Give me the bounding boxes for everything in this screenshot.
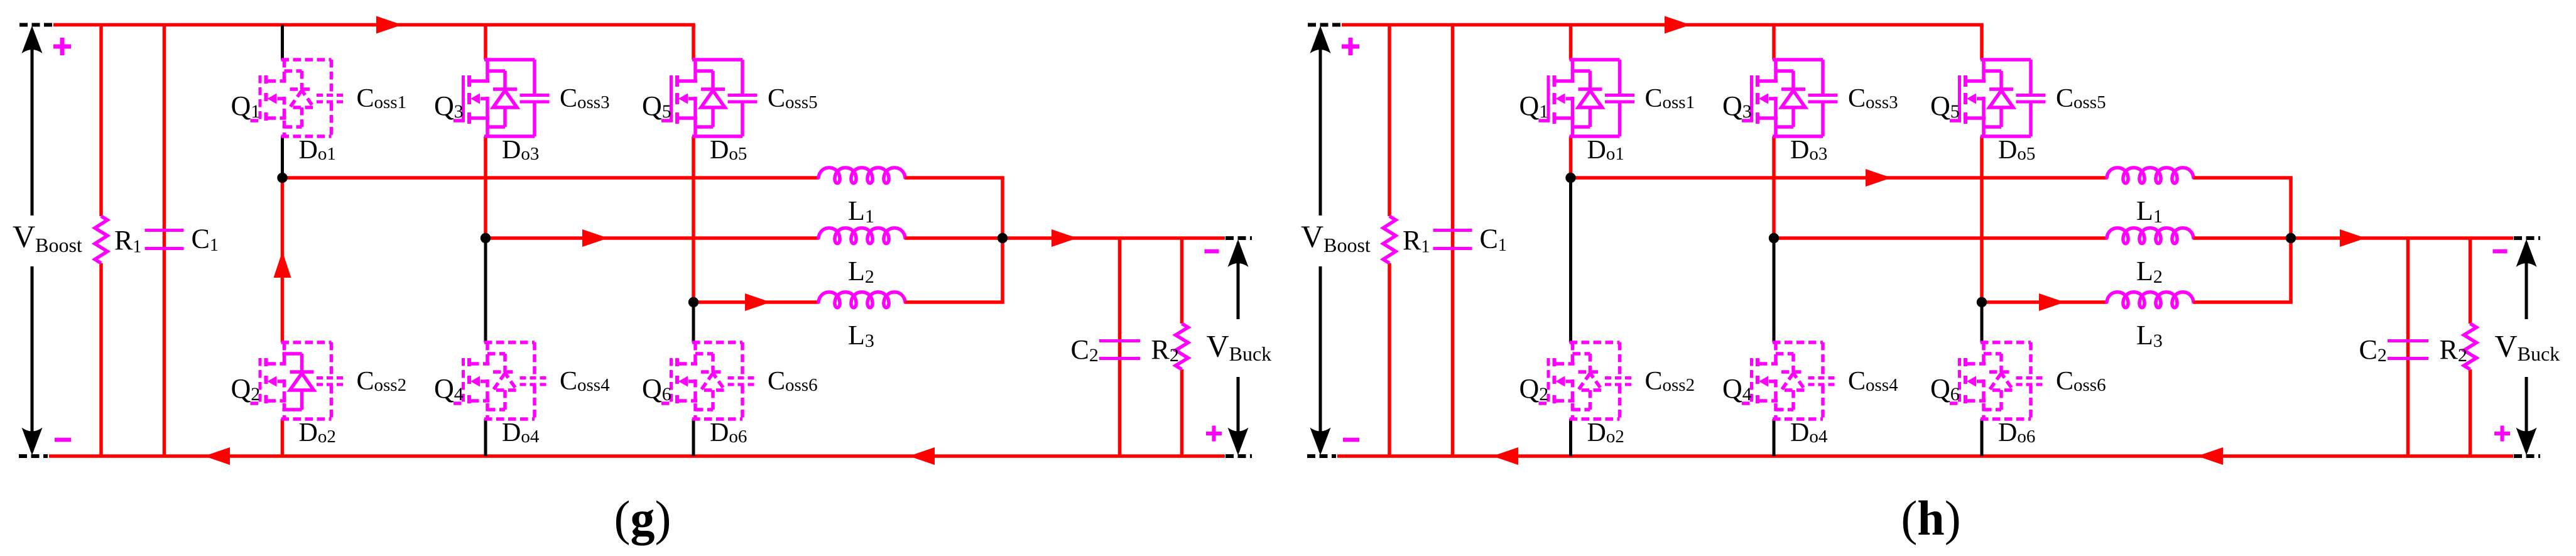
- wire R2 branch: [1180, 238, 1184, 324]
- black dashed stub output top-right: [2514, 236, 2540, 240]
- wire L1 rail left: [283, 176, 819, 180]
- capacitor Coss5: [2016, 60, 2046, 136]
- voltage arrow V_Buck (double headed): [2525, 243, 2528, 319]
- black dashed stub top-left: [1308, 23, 1341, 27]
- current arrow bottom rail left: [204, 447, 230, 465]
- svg-text:(g): (g): [614, 491, 671, 545]
- wire leg1 Q1-to-L1 node (red): [1569, 136, 1573, 178]
- inductor L2: [818, 228, 905, 244]
- current arrow bottom rail right: [909, 447, 935, 465]
- wire top rail (boost bus +): [1342, 23, 1984, 27]
- svg-text:(h): (h): [1901, 491, 1960, 545]
- transistor Q2 MOSFET (off/dashed): [251, 342, 332, 419]
- capacitor Coss6: [2016, 342, 2046, 419]
- transistor Q1 MOSFET (on/solid): [1539, 60, 1620, 136]
- wire C2 branch: [2406, 238, 2410, 456]
- capacitor C2: [2388, 339, 2428, 342]
- inductor L3: [818, 292, 905, 308]
- capacitor Coss6: [728, 342, 758, 419]
- black dashed stub output bottom-right: [2514, 454, 2540, 458]
- wire L3 rail left: [1982, 300, 2107, 304]
- wire leg3 L3-node-to-Q6 (black): [692, 302, 695, 342]
- body diode Do6: [695, 354, 725, 410]
- wire leg1 Q2-to-bottom (red): [281, 419, 285, 456]
- capacitor Coss2: [1605, 342, 1634, 419]
- wire leg3 Q6-to-bottom (black): [1981, 419, 1984, 456]
- wire L2 rail right / output rail: [2193, 236, 2513, 240]
- wire L1 rail right: [905, 176, 1004, 180]
- resistor R2: [2464, 324, 2477, 369]
- black dashed stub top-left: [19, 23, 53, 27]
- body diode Do3: [487, 71, 517, 127]
- body diode Do4: [487, 354, 517, 410]
- resistor R2: [1176, 324, 1188, 369]
- wire C2 branch: [1118, 238, 1122, 456]
- wire leg2 Q3-to-L2 node (red): [484, 136, 487, 238]
- polarity - (output top): [1205, 249, 1219, 254]
- transistor Q1 MOSFET (off/dashed): [251, 60, 332, 136]
- wire inductor join vertical: [2289, 178, 2293, 302]
- inductor L2: [2107, 228, 2193, 244]
- wire L3 rail left: [693, 300, 818, 304]
- node leg1/L1 junction: [1565, 173, 1575, 183]
- current arrow on top rail: [1665, 16, 1690, 34]
- node L-join/L2 junction: [2286, 233, 2296, 243]
- current arrow on L2 rail: [582, 229, 608, 247]
- transistor Q3 MOSFET (on/solid): [1742, 60, 1823, 136]
- body diode Do5: [1984, 71, 2013, 127]
- wire C1 branch: [163, 25, 166, 457]
- wire bottom rail (return bus): [49, 454, 1225, 458]
- body diode Do1: [1573, 71, 1602, 127]
- wire bottom rail (return bus): [1337, 454, 2513, 458]
- black dashed stub bottom-left: [1307, 454, 1336, 458]
- wire L2 rail left: [486, 236, 818, 240]
- body diode Do3: [1776, 71, 1805, 127]
- wire leg1 Q1-to-L1 node (black): [281, 136, 284, 178]
- voltage arrow V_Boost (double headed): [31, 30, 34, 215]
- current arrow up on leg1: [274, 251, 291, 278]
- transistor Q5 MOSFET (on/solid): [1950, 60, 2031, 136]
- body diode Do2: [1573, 354, 1602, 410]
- wire leg1 upper (red, Q1 on): [1569, 25, 1573, 60]
- polarity - (output top): [2493, 249, 2508, 254]
- transistor Q4 MOSFET (off/dashed): [1742, 342, 1823, 419]
- resistor R1: [1383, 216, 1396, 263]
- black dashed stub output top-right: [1226, 236, 1252, 240]
- capacitor Coss1: [317, 60, 346, 136]
- body diode Do1: [285, 71, 314, 127]
- wire R1 branch: [1388, 25, 1391, 217]
- polarity - (input bottom): [55, 438, 71, 442]
- wire L1 rail left: [1571, 176, 2107, 180]
- current arrow on L3 rail: [745, 293, 771, 311]
- wire R1 branch: [99, 25, 103, 217]
- capacitor C1: [145, 229, 184, 232]
- capacitor C1: [1433, 229, 1472, 232]
- current arrow bottom rail right: [2197, 447, 2223, 465]
- transistor Q6 MOSFET (off/dashed): [1950, 342, 2031, 419]
- wire leg2 upper (red): [484, 25, 487, 60]
- body diode Do2: [283, 354, 314, 410]
- capacitor Coss5: [728, 60, 758, 136]
- wire L3 rail right: [2193, 300, 2293, 304]
- wire L3 rail right: [905, 300, 1004, 304]
- wire leg1 L1-node-to-Q2 (red, conducting): [281, 178, 285, 342]
- transistor Q6 MOSFET (off/dashed): [661, 342, 742, 419]
- current arrow on output rail: [2340, 229, 2366, 247]
- wire L2 rail right / output rail: [905, 236, 1225, 240]
- capacitor Coss3: [1808, 60, 1838, 136]
- wire leg2 Q4-to-bottom (black): [1773, 419, 1776, 456]
- node leg1/L1 junction: [277, 173, 287, 183]
- capacitor Coss4: [520, 342, 550, 419]
- polarity - (input bottom): [1343, 438, 1359, 442]
- polarity + (input top): [53, 45, 71, 49]
- node L-join/L2 junction: [997, 233, 1008, 243]
- resistor R1: [95, 216, 107, 263]
- capacitor Coss3: [520, 60, 550, 136]
- current arrow on output rail: [1052, 229, 1077, 247]
- node leg3/L3 junction: [688, 297, 698, 307]
- wire top rail (boost bus +): [53, 23, 695, 27]
- polarity + (input top): [1342, 45, 1359, 49]
- polarity + (output bottom): [1206, 432, 1222, 435]
- wire leg2 Q3-to-L2 node (red): [1772, 136, 1776, 238]
- wire L2 rail left: [1774, 236, 2107, 240]
- wire leg2 Q4-to-bottom (black): [484, 419, 487, 456]
- node leg3/L3 junction: [1977, 297, 1987, 307]
- current arrow bottom rail left: [1492, 447, 1518, 465]
- transistor Q5 MOSFET (on/solid): [661, 60, 742, 136]
- wire leg3 upper (red): [692, 25, 695, 60]
- current arrow on L1 rail: [1866, 169, 1891, 187]
- voltage arrow V_Buck (double headed): [1237, 243, 1240, 319]
- wire leg3 upper (red): [1980, 25, 1984, 60]
- wire leg3 Q5-to-L3 node (red): [1980, 136, 1984, 302]
- wire R2 branch: [2469, 238, 2472, 324]
- capacitor C2: [1099, 339, 1140, 342]
- capacitor Coss4: [1808, 342, 1838, 419]
- wire leg1 Q2-to-bottom (black): [1569, 419, 1572, 456]
- black dashed stub output bottom-right: [1226, 454, 1252, 458]
- wire leg1 L1-node-to-Q2 (black): [1569, 178, 1572, 342]
- wire leg3 L3-node-to-Q6 (black): [1981, 302, 1984, 342]
- transistor Q2 MOSFET (off/dashed): [1539, 342, 1620, 419]
- body diode Do4: [1776, 354, 1805, 410]
- wire L1 rail right: [2193, 176, 2293, 180]
- current arrow on L3 rail: [2039, 293, 2065, 311]
- inductor L3: [2107, 292, 2193, 308]
- inductor L1: [818, 168, 905, 183]
- node leg2/L2 junction: [481, 233, 491, 243]
- transistor Q4 MOSFET (off/dashed): [454, 342, 535, 419]
- wire leg3 Q5-to-L3 node (red): [692, 136, 695, 302]
- wire C1 branch: [1451, 25, 1455, 457]
- body diode Do6: [1984, 354, 2013, 410]
- capacitor Coss2: [317, 342, 346, 419]
- polarity + (output bottom): [2494, 432, 2510, 435]
- inductor L1: [2107, 168, 2193, 183]
- voltage arrow V_Boost (double headed): [1319, 30, 1322, 215]
- wire leg3 Q6-to-bottom (black): [692, 419, 695, 456]
- black dashed stub bottom-left: [19, 454, 48, 458]
- wire leg2 upper (red): [1772, 25, 1776, 60]
- wire leg1 upper (black, Q1 off): [281, 25, 284, 60]
- node leg2/L2 junction: [1769, 233, 1779, 243]
- wire leg2 L2-node-to-Q4 (black): [1773, 238, 1776, 342]
- body diode Do5: [695, 71, 725, 127]
- capacitor Coss1: [1605, 60, 1634, 136]
- transistor Q3 MOSFET (on/solid): [454, 60, 535, 136]
- wire leg2 L2-node-to-Q4 (black): [484, 238, 487, 342]
- wire inductor join vertical: [1001, 178, 1004, 302]
- current arrow on top rail: [376, 16, 402, 34]
